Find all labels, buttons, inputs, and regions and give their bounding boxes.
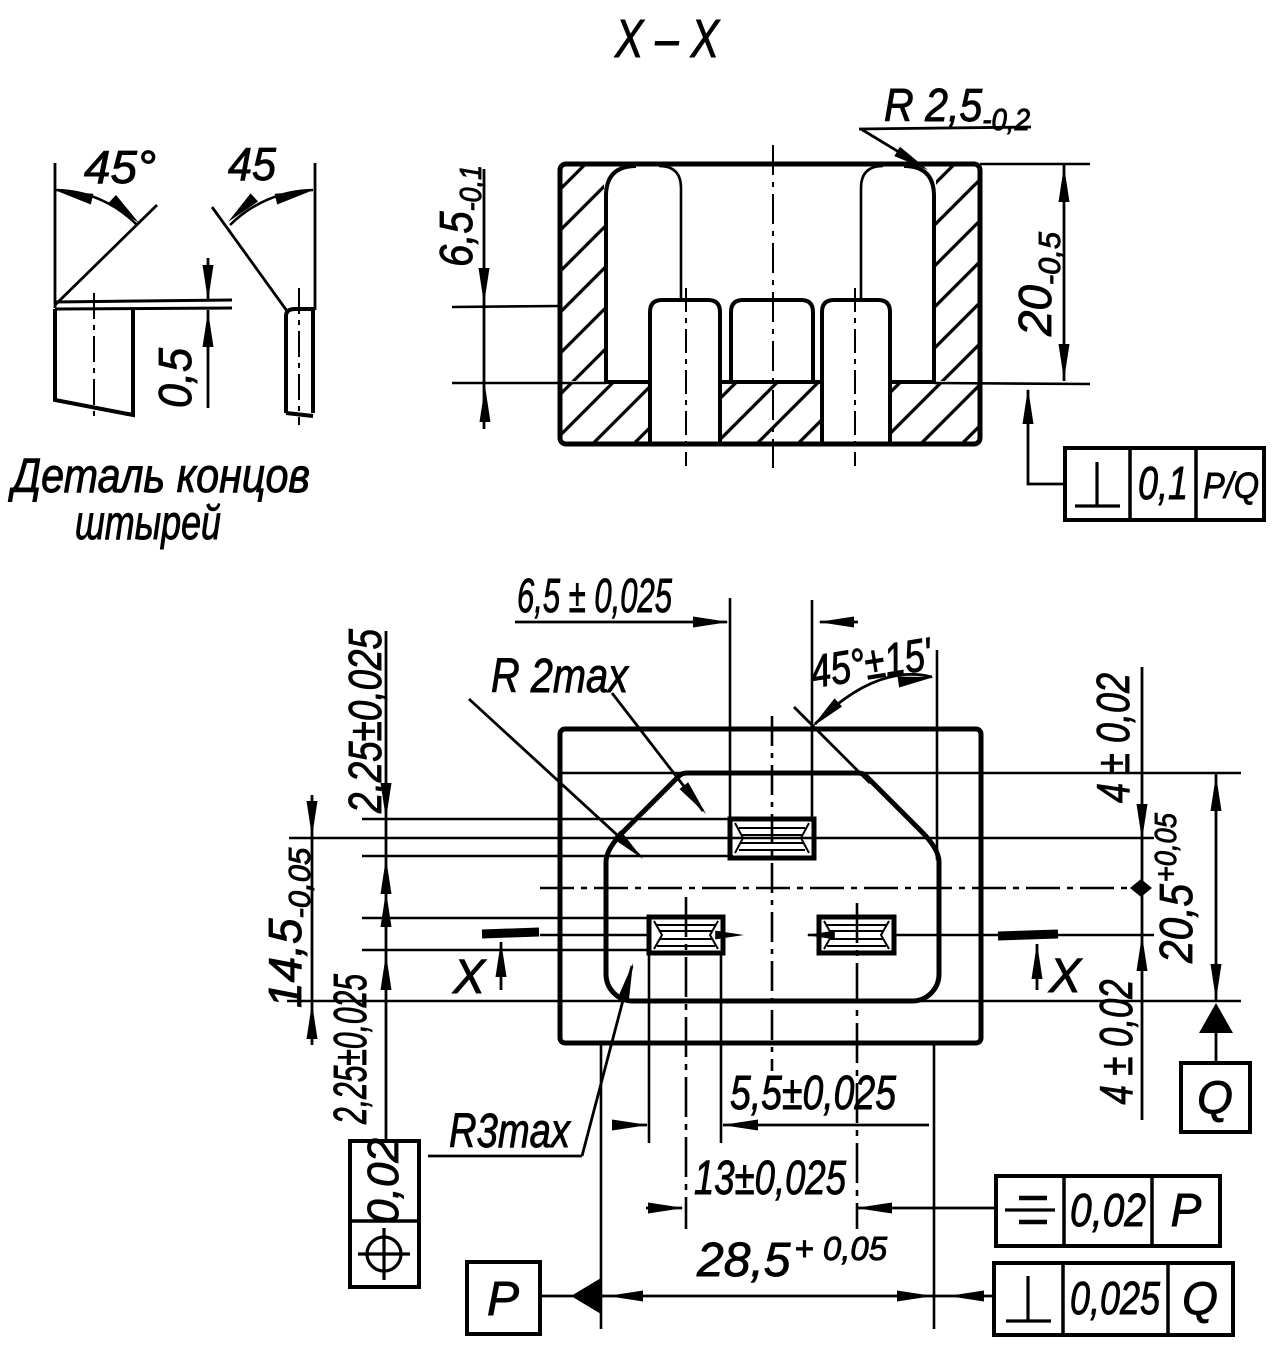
small arrow right of left slot: [723, 934, 732, 937]
svg-text:5,5±0,025: 5,5±0,025: [730, 1067, 896, 1120]
pin 1 (left): [650, 300, 720, 443]
svg-text:45: 45: [228, 138, 276, 190]
top slot edge extension left: [729, 598, 732, 822]
position tolerance frame 0,02: [350, 1138, 419, 1287]
right dimension 4±0,02 pair: [1087, 667, 1148, 1120]
label R 2max: [469, 650, 710, 863]
svg-text:P: P: [1171, 1184, 1202, 1236]
right pin body: [286, 309, 313, 413]
svg-text:Q: Q: [1182, 1272, 1218, 1324]
right wall inner face: [904, 166, 934, 382]
extension line inner-top level: [558, 772, 1241, 775]
datum P attachment: [467, 1262, 601, 1334]
cutting plane line right: [894, 934, 998, 937]
lower right slot: [819, 917, 894, 953]
svg-text:45°: 45°: [84, 141, 156, 193]
svg-text:P/Q: P/Q: [1203, 465, 1259, 506]
datum Q attachment: [1181, 1003, 1250, 1132]
left wall hatch: [562, 166, 604, 381]
tolerance frame perpendicularity 0,1 P/Q: [1023, 388, 1265, 520]
label R3max: [428, 962, 638, 1158]
pin 3 centerline: [854, 288, 856, 466]
extension line lower-slot bottom: [362, 949, 651, 952]
svg-text:0,025: 0,025: [1070, 1272, 1160, 1324]
svg-text:R3max: R3max: [449, 1105, 572, 1158]
right dimension 20,5+0,05: [1148, 774, 1222, 1001]
opening background edge left: [659, 166, 681, 298]
cutting plane arrow left: [500, 942, 503, 990]
extension top edge right: [980, 163, 1090, 166]
chamfer extension line: [794, 707, 870, 783]
opening background edge right: [861, 166, 883, 298]
left slot centerline: [685, 897, 688, 1229]
right pin chamfer diagonal: [212, 207, 287, 311]
svg-text:X: X: [452, 951, 487, 1004]
pin 2 (middle): [731, 300, 813, 381]
right wall hatch: [936, 166, 978, 381]
left pin chamfer diagonal: [55, 205, 157, 305]
left 45 deg arc: [56, 190, 136, 224]
extension line top-slot bottom: [362, 855, 733, 858]
bottom extension lines: [600, 1043, 603, 1329]
svg-text:4 ± 0,02: 4 ± 0,02: [1090, 980, 1142, 1105]
perpendicularity tolerance frame 0,025 Q: [994, 1263, 1233, 1335]
small arrow left of right slot: [808, 934, 819, 937]
right pin centerline: [298, 288, 300, 425]
cavity floor: [606, 380, 650, 384]
lower left slot: [649, 917, 723, 953]
top slot: [730, 819, 814, 858]
svg-text:X – X: X – X: [613, 9, 720, 69]
svg-text:4 ± 0,02: 4 ± 0,02: [1087, 673, 1139, 803]
svg-text:0,1: 0,1: [1138, 457, 1188, 509]
left pin top face lines (0.5 step): [55, 300, 232, 302]
right slot centerline: [856, 903, 859, 1229]
svg-text:R 2max: R 2max: [491, 650, 630, 703]
dimension 0,5: [207, 258, 210, 301]
cutting plane thick bar left: [482, 932, 539, 934]
svg-text:2,25±0,025: 2,25±0,025: [339, 629, 391, 814]
bottom plate hatch: [562, 384, 648, 442]
inner cavity outline: [606, 773, 939, 1001]
extension line floor right: [934, 383, 1090, 384]
svg-text:X: X: [1048, 950, 1083, 1003]
left wall inner face: [606, 166, 636, 382]
top slot edge extension right: [811, 600, 814, 822]
dimension 6,5-0,1: [483, 169, 486, 429]
svg-text:2,25±0,025: 2,25±0,025: [324, 974, 376, 1125]
dimension 28,5+0,05: [540, 1230, 994, 1302]
svg-text:13±0,025: 13±0,025: [694, 1152, 846, 1205]
extension line floor level: [452, 382, 606, 385]
cutting plane thick bar right: [998, 934, 1058, 936]
right 45 deg arc: [230, 190, 313, 225]
right pin extension line: [314, 163, 317, 310]
svg-text:0,02: 0,02: [1070, 1184, 1146, 1236]
inner right edge extension up: [936, 650, 939, 860]
svg-text:Q: Q: [1197, 1071, 1233, 1123]
extension line top-slot center: [289, 837, 1154, 840]
left dimension line 2,25 pair: [324, 629, 392, 1141]
section centerline: [772, 145, 774, 468]
pin 1 centerline: [685, 288, 687, 466]
cutting plane arrow right: [1036, 944, 1039, 990]
pin 3 (right): [822, 300, 890, 443]
dimension 20-0,5: [1063, 165, 1066, 381]
left pin body: [55, 309, 133, 415]
svg-text:P: P: [487, 1273, 519, 1326]
centerline end diamond: [1130, 879, 1152, 897]
body outline: [560, 164, 980, 444]
symmetry tolerance frame 0,02 P: [996, 1176, 1220, 1246]
extension line pin-top level: [452, 306, 560, 307]
extension line top-slot top: [362, 818, 733, 821]
left pin centerline: [93, 293, 95, 422]
dimension 6,5±0,025: [515, 570, 858, 628]
dimension 5,5±0,025: [612, 1067, 929, 1131]
left dimension 14,5-0,05: [259, 795, 318, 1045]
svg-text:штырей: штырей: [75, 497, 221, 550]
svg-text:6,5 ± 0,025: 6,5 ± 0,025: [517, 570, 672, 623]
svg-text:Деталь концов: Деталь концов: [8, 450, 310, 503]
vertical centerline: [771, 716, 774, 1071]
extension line inner-bottom level: [287, 1000, 1241, 1003]
svg-text:0,5: 0,5: [149, 348, 201, 408]
extension line lower-slot top: [362, 917, 651, 920]
cutting plane line left: [540, 934, 649, 937]
dimension 45°±15': [806, 627, 936, 731]
dimension 13±0,025: [646, 1152, 996, 1214]
horizontal centerline: [540, 887, 1131, 890]
left pin extension line: [54, 163, 57, 308]
svg-text:0,02: 0,02: [359, 1138, 408, 1224]
outer body rectangle: [560, 729, 981, 1043]
